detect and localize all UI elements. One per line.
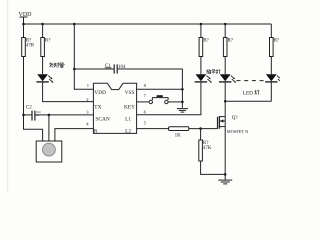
svg-text:KEY: KEY bbox=[124, 104, 135, 110]
node junction col-vdd-ic-rail bbox=[73, 23, 76, 26]
wire col5 upper bbox=[270, 24, 272, 38]
wire led bottoms bbox=[225, 100, 271, 102]
wire r pin4 bbox=[55, 129, 94, 141]
capacitor C2 bbox=[26, 105, 32, 110]
IC U1 bbox=[93, 83, 136, 133]
svg-text:1: 1 bbox=[87, 83, 90, 88]
resistor 1K bbox=[169, 127, 189, 131]
svg-text:SCAN: SCAN bbox=[95, 117, 109, 123]
wire col5 lower bbox=[270, 82, 272, 101]
node junction gate-47k bbox=[199, 127, 202, 130]
wire col4 lower bbox=[224, 82, 226, 101]
svg-text:4: 4 bbox=[86, 122, 89, 127]
wire 47k top bbox=[200, 129, 202, 140]
wire mic center lead bbox=[48, 115, 50, 144]
svg-text:LED: LED bbox=[243, 91, 253, 97]
svg-text:L1: L1 bbox=[125, 117, 131, 123]
pushbutton KEY bbox=[137, 101, 149, 103]
wire col5 mid bbox=[270, 57, 272, 75]
node junction col1-scan bbox=[22, 114, 25, 117]
svg-text:3: 3 bbox=[86, 109, 89, 114]
svg-text:R?: R? bbox=[203, 39, 209, 44]
wire 47k bottom bbox=[201, 161, 226, 174]
svg-text:R?: R? bbox=[45, 39, 51, 44]
wire col4 upper bbox=[224, 24, 226, 38]
node junction col1-rail bbox=[22, 23, 25, 26]
svg-text:R?: R? bbox=[228, 39, 234, 44]
LED D4 bbox=[220, 74, 231, 81]
wire scan pin3 bbox=[24, 114, 32, 116]
node junction vss-key bbox=[181, 101, 184, 104]
label LED灯 bbox=[243, 91, 253, 97]
node junction c1 bbox=[73, 68, 76, 71]
svg-text:1K: 1K bbox=[175, 134, 182, 139]
wire c1 left bbox=[74, 68, 114, 70]
wire c1 right to vss rail bbox=[117, 69, 182, 108]
svg-text:MOSFET N: MOSFET N bbox=[227, 129, 249, 134]
node junction col3-rail bbox=[200, 23, 203, 26]
svg-text:R: R bbox=[94, 129, 98, 135]
wire key to gnd bbox=[168, 101, 183, 103]
wire col1 lower bbox=[24, 57, 43, 142]
svg-text:2: 2 bbox=[86, 97, 89, 102]
LED D5 bbox=[266, 74, 277, 81]
svg-text:7: 7 bbox=[144, 93, 147, 98]
svg-text:Q?: Q? bbox=[232, 116, 239, 121]
node junction col4-col5 bbox=[224, 100, 227, 103]
resistor R5 bbox=[270, 38, 274, 57]
VDD power port bbox=[19, 12, 33, 18]
svg-text:47R: 47R bbox=[26, 43, 35, 48]
svg-text:R?: R? bbox=[274, 39, 280, 44]
ground 1 bbox=[177, 108, 188, 110]
LED D3 指示灯 bbox=[206, 69, 220, 73]
wire col2 middle bbox=[42, 57, 44, 75]
resistor R4 bbox=[223, 38, 227, 57]
resistor R? 47R bbox=[22, 38, 26, 57]
wire pin5 L2 bbox=[137, 128, 169, 130]
svg-text:47K: 47K bbox=[203, 146, 212, 151]
wire pin6 L1 bbox=[137, 82, 201, 115]
svg-text:6: 6 bbox=[144, 110, 147, 115]
svg-text:8: 8 bbox=[144, 83, 147, 88]
wire col3 mid bbox=[200, 57, 202, 75]
node junction source-47k bbox=[224, 173, 227, 176]
wire col3 upper bbox=[200, 24, 202, 38]
node junction vss-pin8 bbox=[181, 88, 184, 91]
svg-text:C2: C2 bbox=[26, 105, 32, 110]
wire col2 lower to pin2 bbox=[43, 82, 94, 102]
wire col vdd pin1 bbox=[74, 24, 93, 89]
svg-text:C1: C1 bbox=[105, 64, 111, 69]
LED D1 emitter 发射管 bbox=[49, 63, 64, 68]
capacitor C1 104 bbox=[113, 64, 115, 73]
wire col2 upper bbox=[42, 24, 44, 38]
pin numbers bbox=[86, 83, 147, 127]
resistor R3 bbox=[199, 38, 203, 57]
resistor R2 bbox=[41, 38, 45, 57]
resistor R? 47K bbox=[199, 140, 203, 161]
node junction col4-rail bbox=[224, 23, 227, 26]
transistor Q? MOSFET N bbox=[217, 117, 219, 129]
ground 2 bbox=[224, 174, 226, 180]
svg-text:VSS: VSS bbox=[125, 90, 135, 96]
svg-text:L2: L2 bbox=[125, 129, 131, 135]
node junction mic-scan bbox=[48, 114, 51, 117]
wire col4 mid bbox=[224, 57, 226, 75]
wire top rail bbox=[23, 23, 271, 25]
node junction col2-rail bbox=[41, 23, 44, 26]
svg-text:VDD: VDD bbox=[94, 90, 106, 96]
svg-text:5: 5 bbox=[144, 121, 147, 126]
wire pin8 vss bbox=[137, 88, 183, 90]
svg-text:TX: TX bbox=[94, 104, 101, 110]
microphone MIC bbox=[36, 141, 62, 162]
wire dashed led continuation bbox=[237, 80, 265, 82]
wire col1 upper bbox=[23, 24, 25, 38]
